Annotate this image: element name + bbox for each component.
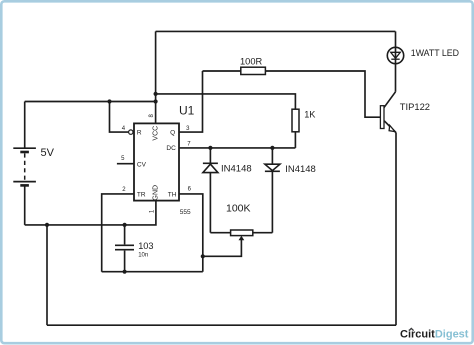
wire bottom return rail [47,324,396,326]
wire top supply rail [156,30,396,32]
junction node supply upper [154,92,158,96]
junction node cap bottom [123,270,127,274]
wire diode D2 bottom lead [271,171,273,232]
wire CV pin 5 stub [117,163,134,165]
svg-text:U1: U1 [179,104,195,118]
svg-text:TIP122: TIP122 [400,101,430,112]
resistor 1K body [292,109,299,132]
wire cap bottom lead [124,251,126,272]
svg-text:1: 1 [149,209,155,213]
wire GND pin 1 branch [25,201,156,225]
wire battery top lead [24,102,26,149]
junction node DC diode1 [208,146,212,150]
wire TH pin 6 branch [179,194,203,272]
svg-text:10n: 10n [138,252,148,258]
IC U1 555 body [134,123,179,200]
wire battery bottom lead [24,186,26,225]
logo CircuitDigest [400,328,469,340]
wire 100R right lead to base [265,71,380,117]
junction node DC diode2 [270,146,274,150]
wire pot left lead [210,232,230,234]
diode D2 IN4148 [265,164,280,171]
svg-text:103: 103 [138,241,153,251]
svg-text:CircuitDigest: CircuitDigest [400,329,469,341]
svg-text:TR: TR [137,192,146,199]
potentiometer 100K body [231,230,253,236]
svg-text:1K: 1K [304,110,316,120]
diode D1 IN4148 [203,163,218,172]
pin 4 bubble [129,130,133,134]
junction node ground left [45,223,49,227]
capacitor C1 plates [115,245,134,249]
svg-text:5: 5 [121,156,125,162]
svg-text:2: 2 [122,187,126,193]
wire reset pin branch [110,102,129,133]
battery BT1 5V [13,148,36,185]
junction node cap top [123,223,127,227]
svg-text:100K: 100K [226,202,251,214]
svg-text:DC: DC [166,145,176,152]
wire diode D1 top lead [209,148,211,163]
svg-text:1WATT LED: 1WATT LED [411,48,459,58]
svg-text:IN4148: IN4148 [285,164,316,175]
wire 1K bottom to DC rail [294,132,296,148]
svg-text:VCC: VCC [153,126,160,141]
wire pot right lead [253,232,273,234]
wire cap top lead [124,225,126,245]
svg-text:IN4148: IN4148 [221,163,252,174]
svg-text:555: 555 [180,209,191,216]
svg-text:R: R [137,130,142,137]
transistor Q1 emitter with arrow [384,121,396,133]
wire diode D2 top lead [271,148,273,164]
svg-text:Q: Q [170,130,175,137]
svg-text:CV: CV [137,162,147,169]
resistor 100R body [241,67,266,74]
wire LED anode lead [395,31,397,91]
svg-text:GND: GND [153,185,160,201]
junction node wiper [201,254,205,258]
svg-text:6: 6 [188,187,192,193]
junction node A plus rail [107,99,111,103]
wire B supply to 1K top [156,94,296,109]
wire diode D1 bottom lead [209,173,211,233]
svg-text:5V: 5V [41,147,55,159]
wire 100R left lead [203,70,241,72]
wire TR-TH bottom rail [102,271,203,273]
transistor Q1 TIP122 base bar [380,106,384,129]
wire TR pin 2 branch [102,194,134,272]
svg-text:8: 8 [149,113,155,117]
svg-text:7: 7 [187,142,191,148]
svg-text:100R: 100R [240,57,263,67]
LED D3 circle [387,47,403,63]
wire DC pin 7 rail [179,147,295,149]
svg-text:TH: TH [168,192,177,199]
LED D3 diode symbol [391,52,401,59]
wire LED cathode to collector [384,92,396,108]
wire ground down branch [46,225,48,325]
wire pot wiper branch [203,240,242,257]
wire VCC vertical rail [155,31,157,123]
junction node supply lower [154,99,158,103]
wire A battery plus rail [25,101,156,103]
potentiometer wiper arrow [239,236,245,240]
wire Q pin 3 to 100R [179,71,203,132]
wire emitter rail [395,133,397,326]
transistor Q1 emitter arrowhead [389,125,395,131]
